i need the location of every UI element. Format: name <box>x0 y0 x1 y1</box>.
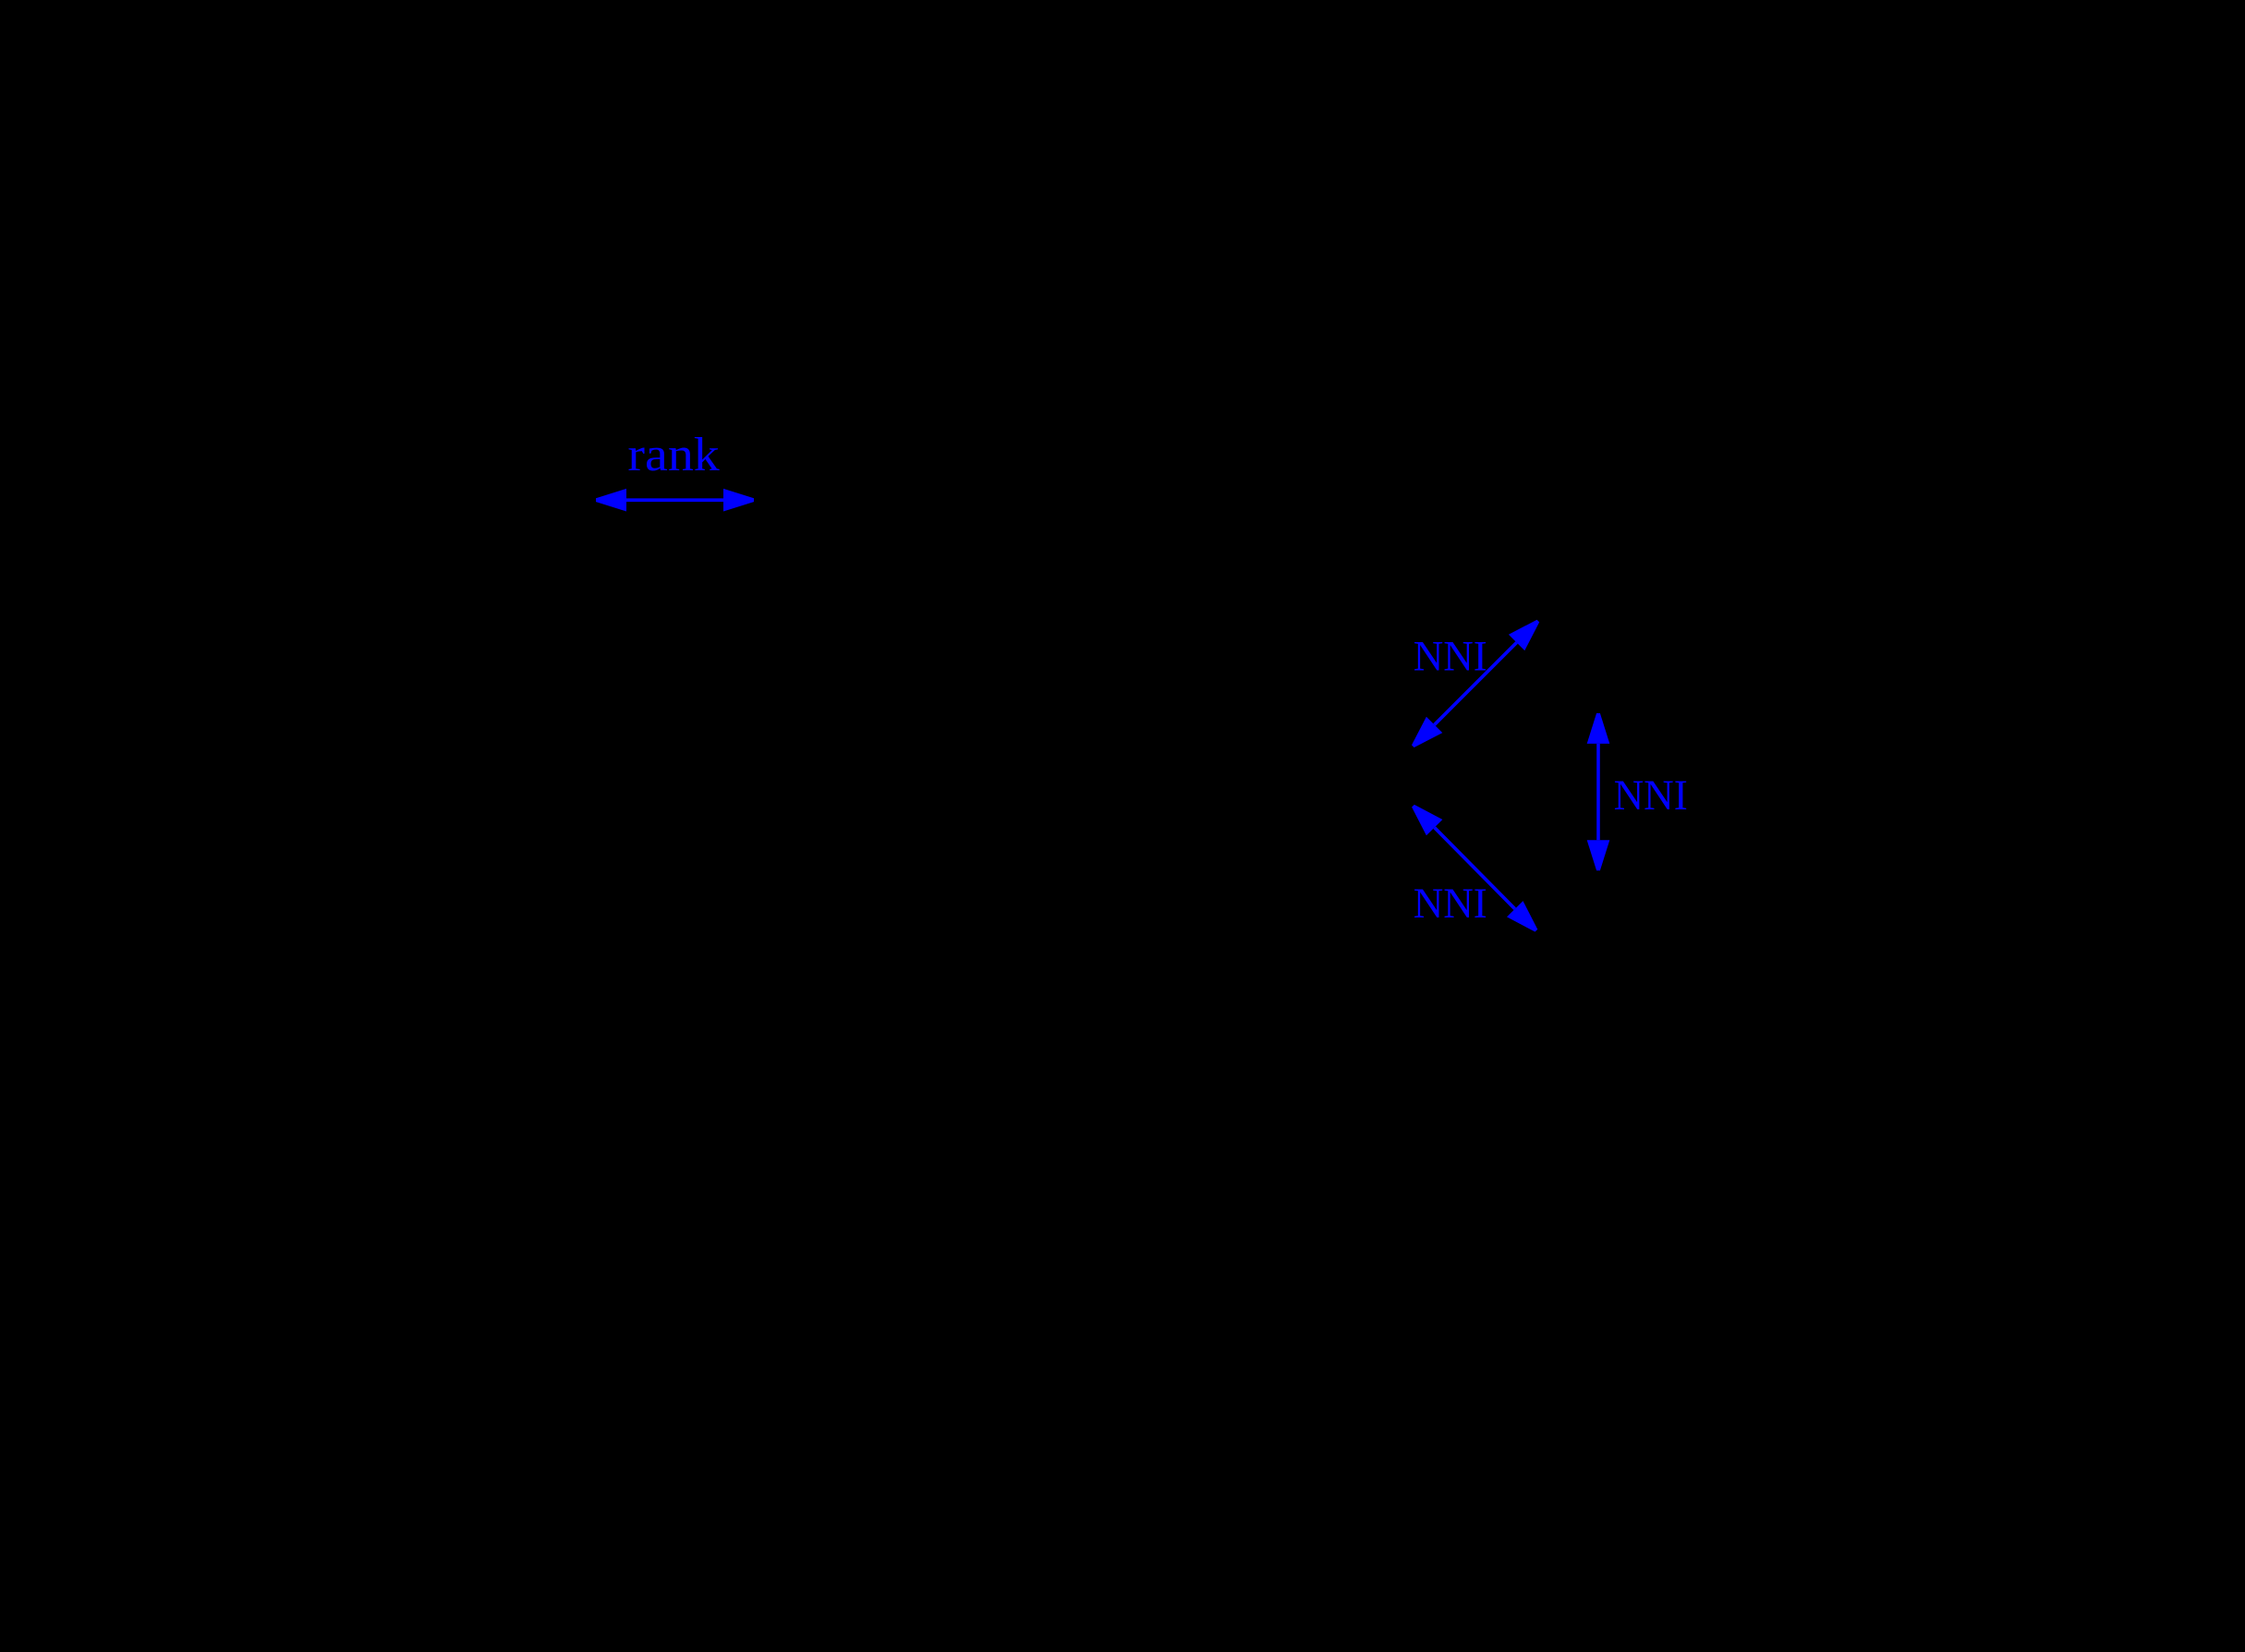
NNI double arrow vertical <box>1587 713 1610 870</box>
svg-text:NNI: NNI <box>1614 772 1688 820</box>
NNI double arrow top diagonal <box>1412 620 1539 747</box>
svg-text:rank: rank <box>627 429 719 481</box>
svg-text:NNI: NNI <box>1414 634 1487 681</box>
svg-text:NNI: NNI <box>1414 881 1487 928</box>
rank double arrow <box>596 489 754 512</box>
NNI double arrow bottom diagonal <box>1412 805 1537 932</box>
